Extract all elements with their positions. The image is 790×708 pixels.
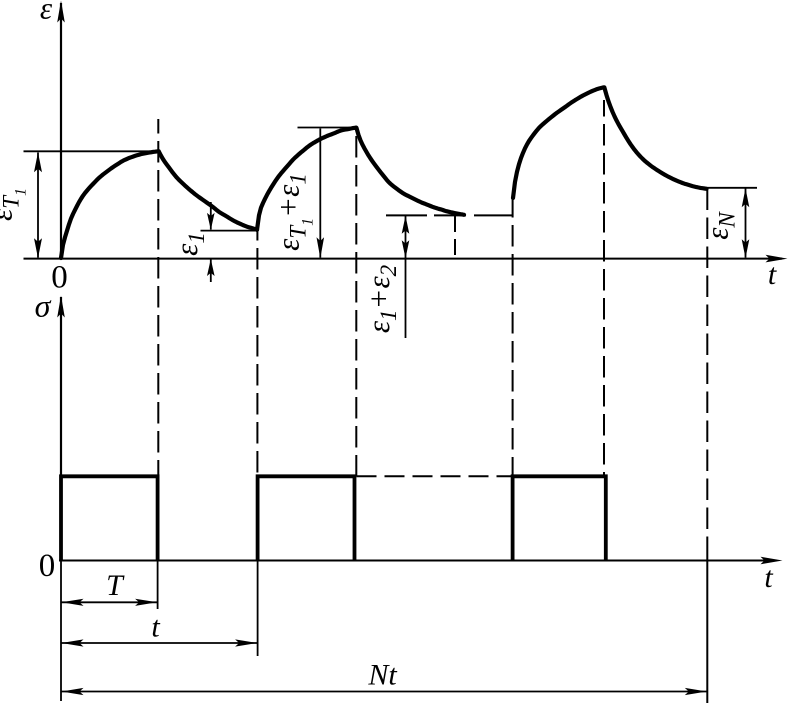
dashed vertical line 5 (end of Nth loading) (603, 100, 605, 476)
dashed vertical line 1 (end of first loading) (157, 119, 159, 476)
svg-text:t: t (764, 561, 773, 594)
epsilon_1+epsilon_2 leader line with double arrows (405, 216, 407, 338)
dimension Nt arrow (61, 691, 707, 693)
dimension line epsilon_T1+epsilon_1 with down arrow (319, 129, 321, 258)
recovery curve cycle N decay (605, 88, 707, 189)
dashed vertical line 3 (end of second loading) (355, 136, 357, 476)
extension line below axis at pulse2 left (257, 561, 259, 657)
epsilon_1 level short line (201, 230, 259, 232)
creep curve cycle 2 rise (257, 128, 356, 230)
short dashed vertical at second cycle end (454, 216, 456, 259)
dimension line epsilon_N double arrow (745, 189, 747, 258)
top time axis (24, 258, 783, 260)
svg-text:ε: ε (40, 0, 53, 26)
creep curve cycle N rise (513, 87, 604, 198)
svg-text:Nt: Nt (367, 659, 397, 692)
long vertical at Nt (lower solid part) (706, 551, 708, 703)
dimension T arrow (61, 601, 158, 603)
svg-text:0: 0 (51, 260, 68, 296)
epsilon_N level line (706, 187, 757, 189)
recovery curve cycle 2 decay (357, 128, 465, 215)
stress pulse 1 (61, 476, 158, 560)
dimension line epsilon_T1 double arrow (37, 153, 39, 258)
epsilon_1 lower leader with up arrow (210, 259, 212, 282)
svg-text:σ: σ (35, 288, 52, 324)
svg-text:t: t (151, 611, 160, 644)
svg-text:t: t (768, 258, 777, 291)
extension line below axis at pulse1 right (157, 561, 159, 610)
stress axis vertical (sigma axis) (60, 297, 62, 561)
stress pulse 2 (258, 476, 355, 560)
dimension t arrow (61, 642, 258, 644)
strain axis vertical (epsilon axis) (60, 3, 62, 259)
creep curve cycle 1 rise (61, 151, 159, 258)
horizontal reference line at second peak level (298, 127, 358, 129)
dashed level line epsilon_1+epsilon_2 (386, 214, 512, 216)
svg-text:T: T (106, 569, 125, 602)
bottom time axis (59, 560, 777, 562)
epsilon_1 upper leader with down arrow (210, 202, 212, 230)
long dashed vertical at Nt (upper dashed part) (706, 189, 708, 552)
recovery curve cycle 1 decay (159, 151, 257, 229)
dashed vertical line 4 (start of Nth loading) (512, 196, 514, 476)
dashed vertical line 2 (start of second loading) (256, 231, 258, 476)
horizontal reference line at first peak level (24, 150, 160, 152)
svg-text:0: 0 (39, 548, 56, 584)
stress pulse 3 (513, 476, 606, 560)
sigma axis extension below axis (60, 561, 62, 702)
dashed line between pulse 2 and pulse 3 tops (357, 475, 513, 477)
